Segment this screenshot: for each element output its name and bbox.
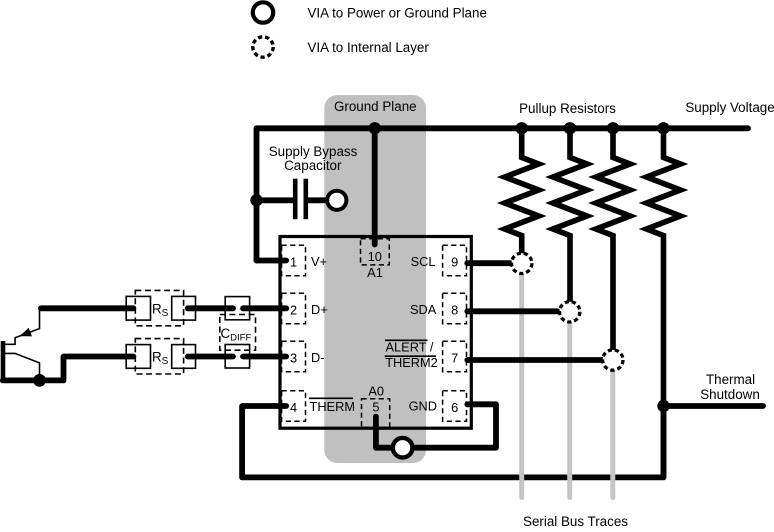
node: transistor collector/base junction	[33, 374, 46, 387]
svg-text:V+: V+	[311, 254, 327, 269]
svg-text:9: 9	[451, 254, 458, 269]
svg-text:SCL: SCL	[411, 254, 436, 269]
via to ground plane (GND/A0)	[393, 438, 413, 458]
svg-text:Capacitor: Capacitor	[284, 158, 342, 173]
svg-text:VIA to Internal Layer: VIA to Internal Layer	[308, 40, 430, 55]
pin 8 pad	[443, 293, 467, 323]
wire: thermal shutdown output	[664, 403, 764, 409]
svg-text:2: 2	[290, 302, 297, 317]
svg-text:A1: A1	[367, 265, 383, 280]
pin 4 pad	[282, 391, 306, 421]
transistor Q1 base bar	[1, 341, 6, 380]
ground plane region	[324, 95, 426, 463]
svg-text:D-: D-	[311, 350, 325, 365]
node: junction on supply rail at x=570.0	[564, 122, 576, 134]
svg-text:10: 10	[368, 249, 382, 264]
svg-text:5: 5	[372, 399, 379, 414]
wire: pin 8 (SDA) to via	[467, 308, 557, 314]
wire: D- line from transistor base/collector to Rs	[3, 357, 134, 381]
pin 9 pad	[443, 245, 467, 275]
wire: pin 1 (V+) stub	[257, 258, 287, 264]
svg-text:Pullup Resistors: Pullup Resistors	[519, 101, 616, 116]
wire: pin 5 (A0) to ground via	[376, 417, 393, 448]
pin 6 pad	[443, 391, 467, 421]
wire: supply rail to pin 10 (A1)	[372, 128, 378, 244]
wire: bypass capacitor to via	[308, 197, 327, 203]
wire: supply tap to bypass capacitor	[257, 197, 293, 203]
legend: VIA to Power or Ground Plane symbol	[253, 2, 273, 22]
svg-text:GND: GND	[409, 398, 437, 413]
svg-text:Supply Bypass: Supply Bypass	[269, 144, 358, 159]
resistor RS1 right pad	[172, 296, 196, 320]
serial bus trace (ALERT/THERM2)	[610, 360, 615, 498]
pin 3 pad	[282, 341, 306, 371]
wire: pin 4 (THERM) bottom loop to thermal shutdown line	[242, 406, 663, 477]
svg-text:6: 6	[451, 400, 458, 415]
resistor R4 (THERM pullup)	[647, 128, 681, 477]
pin 2 pad	[282, 293, 306, 323]
via to ground plane (bypass capacitor)	[327, 191, 346, 210]
svg-text:SDA: SDA	[410, 302, 437, 317]
transistor Q1 collector lead	[5, 353, 40, 380]
resistor RS2 right pad	[172, 345, 196, 369]
via to internal layer (SDA)	[560, 302, 580, 322]
svg-text:A0: A0	[368, 383, 384, 398]
resistor RS1 left pad	[126, 296, 150, 320]
pin 5 pad	[362, 399, 390, 428]
transistor Q1 emitter lead	[5, 309, 40, 344]
resistor RS2 left pad	[126, 345, 150, 369]
legend: VIA to Internal Layer symbol	[253, 37, 273, 57]
wire: Rs to Cdiff pad (D+)	[188, 305, 233, 311]
op-amp U1 IC body	[280, 237, 471, 429]
node: junction thermal shutdown	[657, 400, 669, 412]
svg-text:Serial Bus Traces: Serial Bus Traces	[523, 514, 628, 529]
pin 7 pad	[443, 341, 467, 371]
node: supply tap junction	[250, 194, 262, 206]
svg-text:Shutdown: Shutdown	[700, 387, 760, 402]
via to internal layer (SCL)	[512, 253, 532, 273]
svg-text:Supply Voltage: Supply Voltage	[685, 100, 774, 115]
resistor RS2 outline	[135, 339, 183, 374]
svg-text:8: 8	[451, 302, 458, 317]
svg-text:THERM2: THERM2	[385, 355, 438, 370]
pin 10 pad	[361, 239, 390, 265]
serial bus trace (SCL)	[519, 263, 524, 497]
wire: D+ line from transistor emitter to Rs	[41, 305, 133, 311]
node: junction on supply rail at x=613.0	[607, 122, 619, 134]
capacitor CDIFF bottom pad	[225, 345, 249, 369]
wire: Cdiff pad to pin 2 (D+)	[243, 305, 286, 311]
capacitor C bypass right plate	[303, 179, 308, 220]
svg-text:THERM: THERM	[310, 399, 356, 414]
node: junction on supply rail at x=663.5	[657, 122, 669, 134]
capacitor C bypass left plate	[293, 179, 298, 220]
capacitor CDIFF outline	[220, 315, 256, 351]
serial bus trace (SDA)	[567, 312, 572, 498]
resistor RS1 outline	[135, 290, 183, 325]
svg-text:D+: D+	[311, 302, 328, 317]
transistor Q1 emitter arrow	[20, 328, 32, 337]
resistor R1 (SCL pullup)	[505, 128, 539, 253]
pin 1 pad	[282, 245, 306, 275]
svg-text:ALERT /: ALERT /	[386, 339, 434, 354]
wire: Cdiff pad to pin 3 (D-)	[243, 354, 286, 360]
wire: pin 7 (ALERT/THERM2) to via	[467, 357, 603, 363]
svg-text:3: 3	[290, 350, 297, 365]
svg-text:Thermal: Thermal	[706, 372, 755, 387]
svg-text:4: 4	[290, 400, 297, 415]
wire: pin 6 (GND) to ground via	[413, 404, 496, 447]
wire: pin 9 (SCL) to via	[467, 260, 510, 266]
wire: Rs to Cdiff pad (D-)	[188, 354, 233, 360]
svg-text:1: 1	[290, 254, 297, 269]
resistor R3 (ALERT pullup)	[596, 128, 630, 350]
capacitor CDIFF top pad	[225, 297, 249, 320]
node: junction at A1 drop	[369, 122, 381, 134]
svg-text:7: 7	[451, 350, 458, 365]
resistor R2 (SDA pullup)	[553, 128, 587, 302]
node: junction on supply rail at x=521.7	[516, 122, 528, 134]
via to internal layer (ALERT/THERM2)	[603, 350, 623, 370]
wire: supply rail (vertical drop to pin 1 and horizontal rail)	[257, 128, 749, 260]
svg-text:Ground Plane: Ground Plane	[334, 99, 417, 114]
svg-text:VIA to Power or Ground Plane: VIA to Power or Ground Plane	[308, 5, 487, 20]
